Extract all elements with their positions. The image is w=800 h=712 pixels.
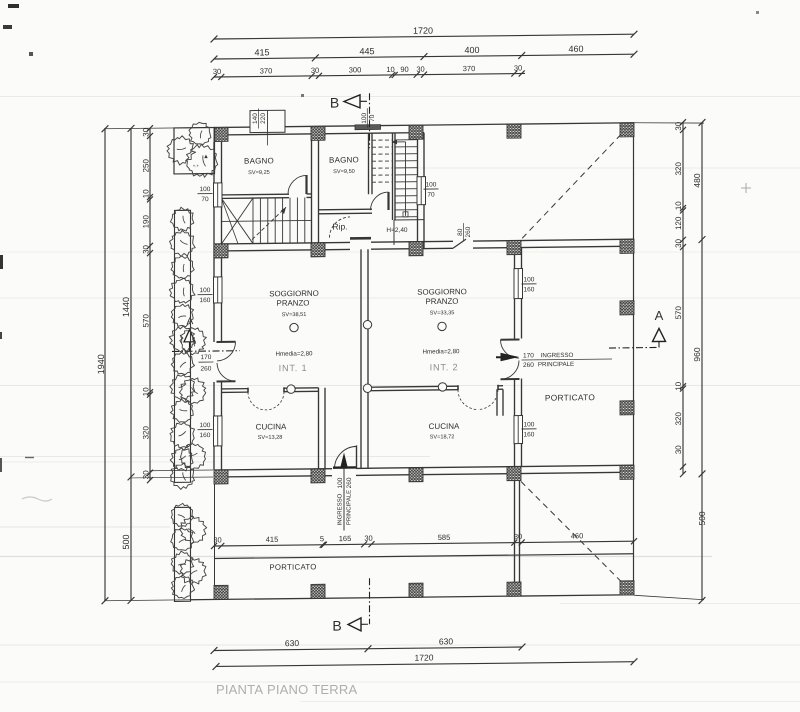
tree 1 <box>189 122 211 144</box>
section marker B (top) <box>330 93 370 148</box>
svg-text:630: 630 <box>439 636 453 646</box>
party wall between units <box>360 249 362 468</box>
svg-text:10: 10 <box>141 387 150 397</box>
pillar row-south x=409 <box>409 468 423 482</box>
pillar row-top x=409 <box>409 125 423 139</box>
porch bottom edge (south) <box>190 595 634 600</box>
svg-text:220: 220 <box>260 113 267 124</box>
svg-text:90: 90 <box>400 65 408 74</box>
label 100/160 west window 1 <box>198 287 213 304</box>
svg-text:250: 250 <box>141 159 150 173</box>
svg-text:100: 100 <box>524 276 535 283</box>
svg-text:30: 30 <box>141 470 150 480</box>
bottom wall (south, house) <box>214 469 332 470</box>
svg-text:415: 415 <box>266 535 279 544</box>
dimension chain 30/415/5/165/30/585/30/460 (porch) <box>211 531 637 549</box>
svg-text:5: 5 <box>320 534 324 543</box>
svg-text:260: 260 <box>465 226 472 237</box>
svg-text:10: 10 <box>674 201 683 211</box>
section marker A (right) <box>609 308 666 348</box>
hedge bulge low 2 <box>180 558 206 584</box>
door rip <box>329 217 371 239</box>
svg-text:140: 140 <box>252 113 259 124</box>
section marker B (bottom) <box>332 578 370 633</box>
under-stair partition <box>394 219 424 221</box>
pillar row-top x=214 <box>214 127 228 141</box>
svg-text:160: 160 <box>200 432 211 439</box>
svg-text:Hmedia=2,80: Hmedia=2,80 <box>276 350 314 357</box>
door east main entrance (170/260) <box>501 340 520 380</box>
svg-text:1720: 1720 <box>413 26 433 36</box>
svg-text:PRANZO: PRANZO <box>277 298 310 307</box>
svg-text:570: 570 <box>141 314 150 328</box>
window west 100/160 (soggiorno1) <box>214 277 223 303</box>
svg-text:100: 100 <box>200 422 211 429</box>
svg-text:415: 415 <box>254 47 269 57</box>
svg-text:445: 445 <box>359 46 374 56</box>
svg-text:30: 30 <box>364 534 372 543</box>
staircase INT.2 (solid treads) <box>395 140 418 217</box>
svg-text:160: 160 <box>524 286 535 293</box>
svg-text:PORTICATO: PORTICATO <box>269 562 316 572</box>
svg-text:165: 165 <box>339 534 352 543</box>
right porch edge wall (east) <box>633 123 635 595</box>
staircase INT.1 winder diagonals <box>222 198 254 244</box>
svg-text:570: 570 <box>674 305 683 319</box>
extension line 1440/500 left <box>131 476 213 479</box>
pillar row-top x=311 <box>311 126 325 140</box>
svg-text:CUCINA: CUCINA <box>256 422 287 431</box>
svg-text:100: 100 <box>361 112 368 123</box>
svg-text:30: 30 <box>514 64 522 73</box>
hedge bulge 1 <box>180 327 207 355</box>
svg-text:320: 320 <box>141 426 150 440</box>
svg-text:1940: 1940 <box>96 354 106 374</box>
cucina1 north wall <box>222 388 249 390</box>
dashed roof diagonal (SE porch) <box>521 480 622 583</box>
door spine (80/260) <box>453 239 466 248</box>
door cucina2 double dashed <box>458 385 498 410</box>
pillar row-top x=507 <box>507 124 521 138</box>
svg-text:INT. 2: INT. 2 <box>430 362 459 372</box>
svg-text:100: 100 <box>524 421 535 428</box>
window east 100/160 (soggiorno2) <box>514 269 523 299</box>
porch divider wall (south porch) <box>514 481 516 582</box>
svg-text:260: 260 <box>201 366 212 373</box>
entrance arrow south + stem <box>340 452 348 530</box>
top wall (north, house) <box>214 125 424 127</box>
door bagno2 <box>371 192 389 210</box>
svg-text:30: 30 <box>674 121 683 131</box>
left outer wall (west) <box>213 142 215 183</box>
svg-text:30: 30 <box>141 244 150 254</box>
svg-text:CUCINA: CUCINA <box>429 422 460 431</box>
window east 100/160 (cucina2) <box>514 416 523 444</box>
svg-text:260: 260 <box>346 477 353 488</box>
label 100/70 at section B <box>361 108 376 128</box>
tree 3 <box>186 144 218 177</box>
svg-text:10: 10 <box>141 189 150 199</box>
svg-text:BAGNO: BAGNO <box>244 156 274 165</box>
hedge bulge 3 <box>181 443 206 470</box>
dashed roof diagonal (NE porch) <box>522 134 621 238</box>
bagno1 south wall <box>214 193 289 196</box>
svg-text:120: 120 <box>674 216 683 230</box>
hedge bush low 4 <box>171 575 194 598</box>
dimension 1440/500 (left) <box>121 125 134 604</box>
stair divider wall <box>392 133 394 220</box>
hedge bush 6 <box>169 326 195 352</box>
stair direction dashed arrow INT.1 <box>252 207 286 239</box>
extension line bottom-left <box>104 600 213 601</box>
dimension chain 30/250/10/190/30/570/10/320/30 (left) <box>141 125 153 483</box>
svg-text:300: 300 <box>349 65 362 74</box>
party wall circles <box>363 321 371 329</box>
svg-text:30: 30 <box>213 67 221 76</box>
pillar row-top x=620 <box>620 123 634 137</box>
hedge bush 5 <box>171 304 193 327</box>
svg-text:SV=33,35: SV=33,35 <box>430 310 455 316</box>
dimension 1720 (bottom) <box>213 650 638 670</box>
svg-text:460: 460 <box>571 531 584 540</box>
svg-text:INGRESSO: INGRESSO <box>338 493 344 525</box>
door south entrance (100/260) <box>333 445 357 468</box>
svg-text:100: 100 <box>337 477 344 488</box>
svg-text:PRINCIPALE: PRINCIPALE <box>538 361 574 368</box>
hedge bush 3 <box>171 256 194 279</box>
hedge bush 12 <box>170 463 194 489</box>
hedge bulge 2 <box>180 378 206 404</box>
staircase INT.2 (dashed upper flight) <box>372 140 393 182</box>
pillar row-spine x=620 <box>620 239 634 253</box>
svg-text:PIANTA PIANO TERRA: PIANTA PIANO TERRA <box>216 682 357 697</box>
svg-text:400: 400 <box>464 45 479 55</box>
pillar row-south x=507 <box>507 467 521 481</box>
window north 100/70 (bagno2, dark bar) <box>355 125 381 130</box>
dimension 630/630 (bottom) <box>211 635 526 653</box>
hedge bush 2 <box>170 230 196 256</box>
extension line top-right <box>634 122 704 124</box>
label 100/70 stair window <box>424 181 439 198</box>
pillar row-south x=311 <box>311 469 325 483</box>
window north 140/220 (bagno1) <box>250 110 285 145</box>
svg-text:260: 260 <box>523 362 534 369</box>
hedge bush low 2 <box>171 528 194 550</box>
dimension chain 30/320/10/120/30/570/10/320/30 (right) <box>674 119 686 477</box>
svg-text:1720: 1720 <box>415 653 434 663</box>
scan streaks <box>0 96 800 98</box>
pillar row-porch x=620 <box>620 581 634 595</box>
pillar row-porch x=214 <box>214 585 228 599</box>
svg-text:160: 160 <box>524 431 535 438</box>
extension line top-left <box>104 128 213 129</box>
hedge bush 9 <box>170 399 193 422</box>
svg-text:INGRESSO: INGRESSO <box>541 352 574 359</box>
dimension 480/960/500 (right) <box>692 119 707 604</box>
label 100/160 east window 1 <box>522 276 537 293</box>
svg-text:SV=9,25: SV=9,25 <box>248 170 270 176</box>
svg-text:960: 960 <box>692 347 702 362</box>
dimension chain total 1720 (top) <box>211 23 638 42</box>
svg-text:170: 170 <box>523 352 534 359</box>
svg-text:320: 320 <box>674 161 683 175</box>
svg-text:PRANZO: PRANZO <box>426 297 459 306</box>
lamp circle soggiorno2 <box>438 322 446 330</box>
label 100/260 south entrance (rotated) <box>337 477 353 488</box>
extension line bottom-right <box>634 594 704 600</box>
pillar row-south x=214 <box>214 470 228 484</box>
label 100/70 west window <box>198 186 213 203</box>
planter box top-left <box>174 127 215 173</box>
svg-text:30: 30 <box>416 65 424 74</box>
bagno2 south wall <box>319 208 372 211</box>
left porch edge (west, below house) <box>214 484 216 600</box>
window west 100/160 (cucina1) <box>214 416 223 446</box>
label 140/220 north window (rotated) <box>252 108 267 128</box>
hedge bush 7 <box>171 352 194 375</box>
label 80/260 spine door (rotated) <box>457 223 472 241</box>
svg-text:160: 160 <box>200 297 211 304</box>
hedge bush low 1 <box>171 503 194 526</box>
section marker A (left, small) <box>172 316 240 352</box>
svg-text:70: 70 <box>369 114 376 122</box>
window west 100/70 <box>214 183 223 207</box>
bagno divider wall <box>311 134 313 250</box>
svg-text:630: 630 <box>285 638 299 648</box>
svg-text:B: B <box>330 95 339 111</box>
hedge bush 11 <box>170 448 193 471</box>
lamp circle soggiorno1 <box>290 323 298 331</box>
svg-text:370: 370 <box>260 66 273 75</box>
svg-text:10: 10 <box>674 381 683 391</box>
label 100/160 east window 2 <box>522 421 537 438</box>
tree 2 <box>167 136 196 166</box>
cucina2 wall stub <box>496 389 498 416</box>
cucina2 north wall <box>368 386 458 387</box>
svg-text:30: 30 <box>141 127 150 137</box>
pillar row-spine x=507 <box>507 241 521 255</box>
svg-text:SV=38,51: SV=38,51 <box>282 312 307 318</box>
pillar row-porch x=409 <box>409 583 423 597</box>
svg-text:H=2,40: H=2,40 <box>386 227 408 234</box>
stair direction arrow INT.2 <box>392 139 409 217</box>
pillar east porch mid1 <box>620 301 634 315</box>
svg-text:PRINCIPALE: PRINCIPALE <box>347 490 353 525</box>
dimension chain 30/370/30/300/10/90/30/370/30 <box>211 63 525 80</box>
hedge planter upper <box>175 210 191 482</box>
svg-text:1440: 1440 <box>121 297 131 317</box>
svg-text:▲: ▲ <box>203 154 209 160</box>
right inner wall (house east) <box>514 248 516 269</box>
dimension 1940 (left) <box>96 125 108 604</box>
svg-text:SV=13,28: SV=13,28 <box>258 435 283 441</box>
staircase INT.1 treads <box>222 197 312 244</box>
label 170/260 west door <box>199 354 214 373</box>
window stair-east 100/70 <box>417 177 426 205</box>
svg-text:320: 320 <box>674 411 683 425</box>
door cucina1 double dashed <box>248 387 284 410</box>
hedge bush 1 <box>170 207 193 231</box>
svg-text:INT. 1: INT. 1 <box>279 363 308 373</box>
svg-text:370: 370 <box>463 64 476 73</box>
pillar row-spine x=311 <box>311 243 325 257</box>
hedge bush 10 <box>170 423 195 448</box>
hedge bush 4 <box>169 278 195 303</box>
svg-text:30: 30 <box>674 238 683 248</box>
svg-text:SOGGIORNO: SOGGIORNO <box>269 289 319 299</box>
door west double (170/260) <box>217 342 236 382</box>
svg-text:190: 190 <box>141 215 150 229</box>
pillar row-spine x=409 <box>409 242 423 256</box>
svg-text:100: 100 <box>200 186 211 193</box>
svg-text:70: 70 <box>427 191 435 198</box>
svg-text:Rip.: Rip. <box>332 221 347 231</box>
hedge planter lower <box>175 507 191 601</box>
pillar row-porch x=311 <box>311 584 325 598</box>
svg-text:BAGNO: BAGNO <box>329 155 359 164</box>
door bagno1 <box>288 175 307 194</box>
entrance arrow east <box>501 353 520 362</box>
top edge porch (north-east) <box>424 123 634 125</box>
pillar row-south x=620 <box>620 465 634 479</box>
pillar east porch mid2 <box>620 401 634 415</box>
svg-text:Hmedia=2,80: Hmedia=2,80 <box>423 348 461 355</box>
hedge bush low 3 <box>171 551 194 574</box>
svg-text:70: 70 <box>201 196 209 203</box>
label INGRESSO PRINCIPALE south (rotated) <box>338 490 353 526</box>
svg-text:SOGGIORNO: SOGGIORNO <box>417 287 467 297</box>
dimension chain 415/445/400/460 <box>211 43 638 62</box>
svg-text:460: 460 <box>568 44 583 54</box>
bagno2 east wall <box>368 133 370 194</box>
svg-text:30: 30 <box>674 445 683 455</box>
pillar row-porch x=507 <box>507 582 521 596</box>
cucina1 east wall <box>318 388 320 469</box>
svg-text:170: 170 <box>201 354 212 361</box>
svg-text:PORTICATO: PORTICATO <box>545 392 595 403</box>
svg-text:500: 500 <box>121 534 131 549</box>
main spine wall (stair hall / soggiorno) <box>214 242 350 244</box>
svg-text:B: B <box>332 618 341 634</box>
svg-text:SV=9,50: SV=9,50 <box>333 169 355 175</box>
scan specks <box>8 4 19 8</box>
svg-text:585: 585 <box>438 533 451 542</box>
svg-text:100: 100 <box>426 181 437 188</box>
hedge bulge low 1 <box>180 516 207 544</box>
hedge bush 8 <box>170 375 195 400</box>
svg-text:480: 480 <box>692 173 702 188</box>
svg-text:*·*: *·* <box>193 164 199 170</box>
svg-text:100: 100 <box>200 287 211 294</box>
svg-text:30: 30 <box>311 66 319 75</box>
svg-text:A: A <box>655 308 664 323</box>
svg-text:500: 500 <box>697 511 707 526</box>
label 100/160 west window 2 <box>198 422 213 439</box>
pillar row-spine x=214 <box>214 244 228 258</box>
porch paving line <box>214 554 634 559</box>
svg-text:10: 10 <box>386 65 394 74</box>
svg-text:SV=18,72: SV=18,72 <box>430 434 455 440</box>
svg-text:80: 80 <box>457 228 464 236</box>
stair east wall <box>417 133 419 177</box>
